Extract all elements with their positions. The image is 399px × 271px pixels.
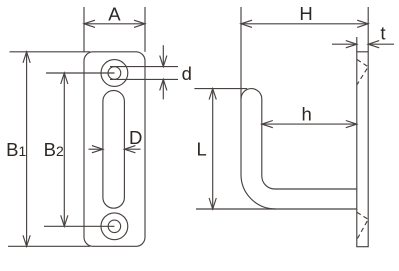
arrow shaft D right xyxy=(124,148,140,150)
bracket outer corner radius xyxy=(241,175,276,210)
arrow shaft t left xyxy=(332,43,357,45)
arrow shaft D left xyxy=(89,148,103,150)
arrowhead h left xyxy=(262,121,273,128)
arrowhead B2 top xyxy=(61,73,68,84)
top hole inner circle d xyxy=(108,67,121,80)
arrow shaft t right xyxy=(368,43,394,45)
svg-text:L: L xyxy=(196,139,206,160)
break line bottom (dashed) xyxy=(357,212,368,239)
arrowhead A right xyxy=(134,20,145,27)
bottom hole outer circle xyxy=(101,213,128,240)
arrowhead D right xyxy=(124,146,135,153)
arrowhead D left xyxy=(92,146,103,153)
extension line B1 bottom xyxy=(8,245,90,247)
wall plate (side view) xyxy=(357,52,368,247)
svg-text:D: D xyxy=(129,127,142,148)
dimension line B2 xyxy=(63,73,65,226)
svg-text:H: H xyxy=(299,3,312,24)
leader line d bottom xyxy=(110,78,178,80)
dimension line B1 xyxy=(26,52,28,247)
slot (stadium) D xyxy=(103,91,125,209)
bottom hole inner circle d xyxy=(108,220,121,233)
dimension line h xyxy=(262,123,357,125)
arrowhead t right xyxy=(368,41,379,48)
extension line A right xyxy=(144,7,146,52)
extension line H right (plate right edge extended) xyxy=(367,7,369,52)
svg-text:t: t xyxy=(380,22,385,43)
arrowhead L top xyxy=(209,89,216,100)
dimension line L xyxy=(212,89,214,209)
svg-text:B2: B2 xyxy=(44,139,64,160)
svg-text:B1: B1 xyxy=(6,139,26,160)
arrowhead H right xyxy=(357,20,368,27)
right view: bracket arm outline xyxy=(241,89,357,189)
extension line L top xyxy=(194,88,247,90)
extension line A left xyxy=(83,7,85,52)
top hole outer circle xyxy=(101,60,128,87)
dimension line A xyxy=(84,23,145,25)
svg-text:A: A xyxy=(108,4,121,25)
extension line B2 top (to top hole centre) xyxy=(46,72,115,74)
extension line t (plate left edge extended) xyxy=(356,37,358,52)
arrowhead H left xyxy=(241,20,252,27)
arrowhead L bottom xyxy=(209,198,216,209)
arrowhead B2 bottom xyxy=(61,215,68,226)
arrowhead B1 bottom xyxy=(23,235,30,246)
arrow shaft d bottom xyxy=(162,79,164,99)
extension line L bottom / arm outer bottom edge xyxy=(196,208,357,210)
arrowhead A left xyxy=(84,20,95,27)
arrowhead B1 top xyxy=(23,52,30,63)
arrow shaft d top xyxy=(162,45,164,66)
leader line d top xyxy=(110,66,178,68)
extension line B2 bottom (to bottom hole centre) xyxy=(44,225,115,227)
break line top (dashed) xyxy=(357,60,368,85)
arrowhead t left xyxy=(346,41,357,48)
arrowhead d bottom xyxy=(160,79,167,90)
svg-text:d: d xyxy=(182,63,192,84)
extension line B1 top xyxy=(10,51,91,53)
svg-text:h: h xyxy=(301,104,311,125)
arrowhead d top xyxy=(160,56,167,67)
dimension line H xyxy=(241,23,368,25)
left view: mounting plate outline xyxy=(84,52,145,247)
extension line H left (arm left edge extended) xyxy=(240,7,242,99)
arrowhead h right xyxy=(346,121,357,128)
